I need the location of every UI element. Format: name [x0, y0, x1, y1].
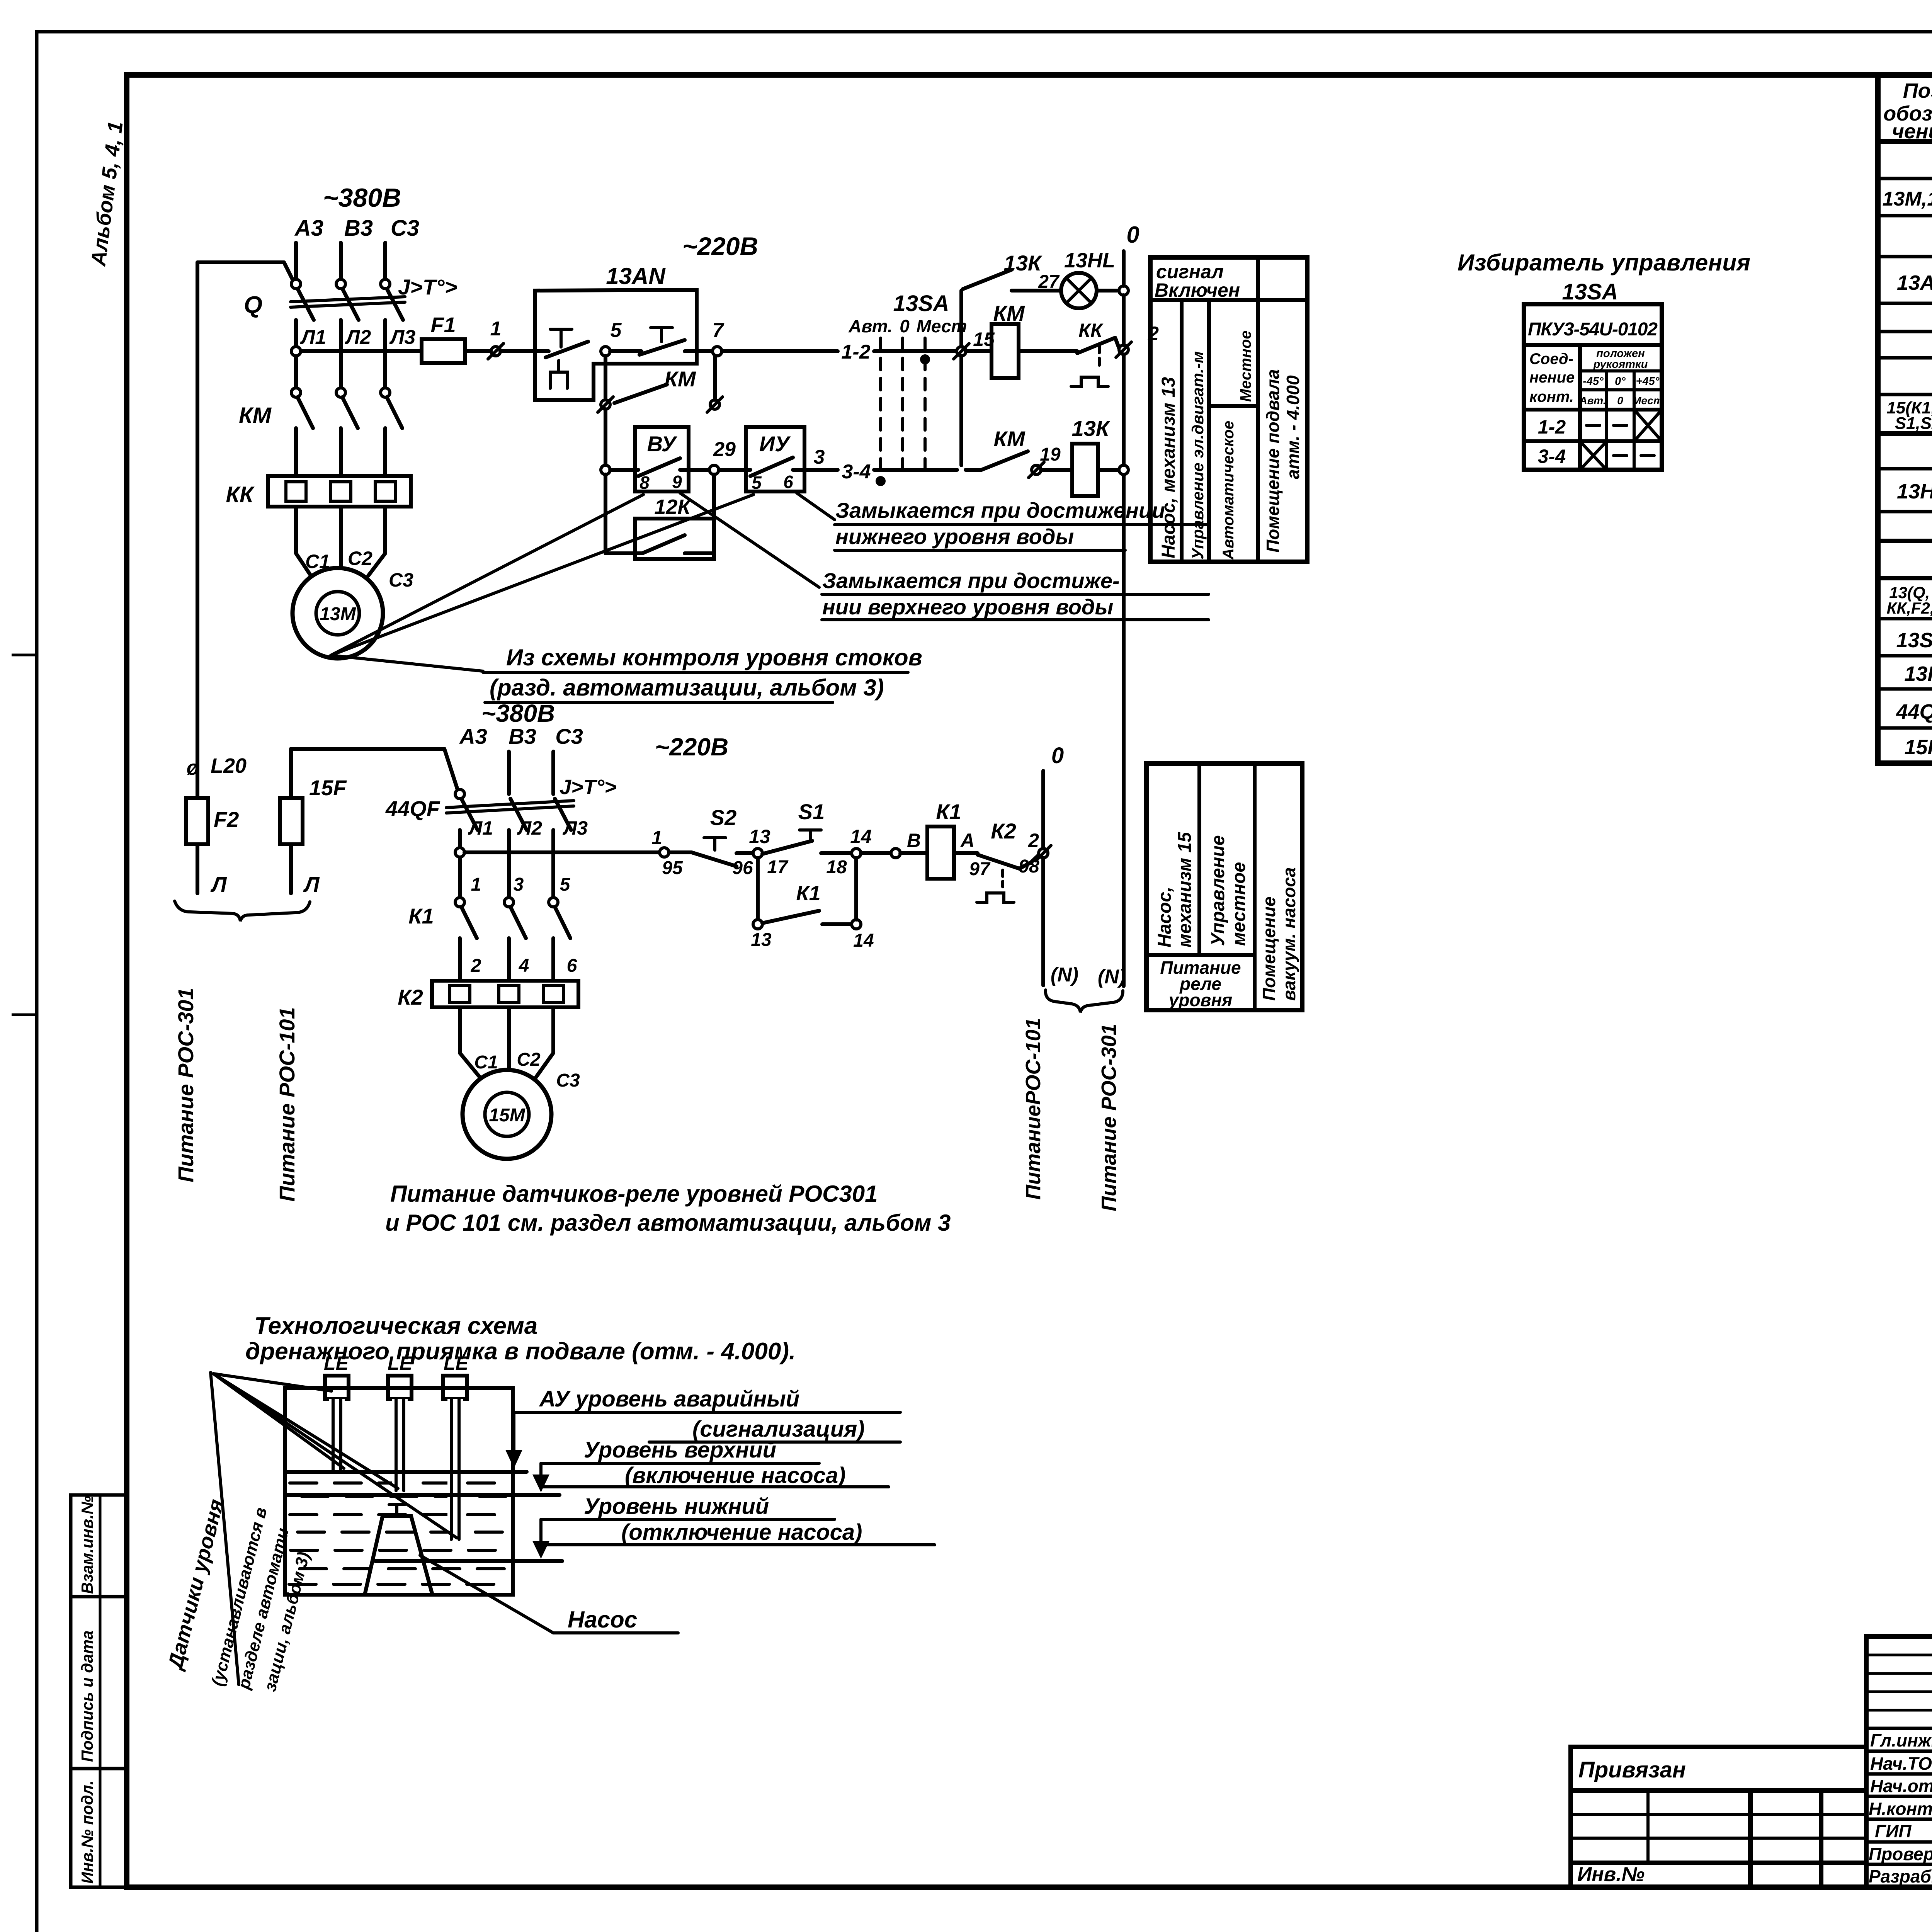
svg-text:ПКУ3-54U-0102: ПКУ3-54U-0102: [1528, 319, 1658, 340]
node 7: [713, 319, 724, 356]
svg-text:0: 0: [900, 316, 910, 336]
svg-text:44QF: 44QF: [1896, 700, 1932, 723]
parts row 13К реле: [1904, 660, 1932, 687]
net ~220В circuit 1 label: [682, 232, 758, 260]
svg-text:Уровень нижний: Уровень нижний: [584, 1494, 769, 1519]
parts row 13(Q,F1,КК,F2,КМ) блок управления: [1887, 581, 1932, 619]
parts row 13М,15М электродвигатель: [1883, 179, 1932, 218]
node B3 label: [344, 216, 373, 241]
svg-text:КМ: КМ: [993, 427, 1025, 451]
svg-text:ПитаниеРОС-101: ПитаниеРОС-101: [1022, 1018, 1045, 1200]
svg-text:Избиратель управления: Избиратель управления: [1458, 250, 1750, 276]
button start SB in 13AN: [610, 328, 713, 355]
svg-text:~220В: ~220В: [682, 232, 758, 260]
svg-text:13К: 13К: [1004, 251, 1043, 275]
node 13 circuit2: [749, 826, 789, 878]
node 29: [709, 438, 736, 474]
svg-text:К2: К2: [991, 819, 1016, 843]
wire phase B3 drop: [339, 243, 343, 280]
node 13K coil to rail: [1119, 465, 1128, 474]
svg-text:Питание РОС-101: Питание РОС-101: [275, 1007, 299, 1202]
rail 0 circuit 2: [1043, 743, 1064, 985]
svg-text:С2: С2: [348, 548, 372, 569]
svg-text:Замыкается при достиже-: Замыкается при достиже-: [822, 568, 1120, 593]
svg-text:J˃T°˃: J˃T°˃: [398, 275, 457, 299]
left margin stamp strip: [71, 1495, 127, 1887]
net ~380В circuit 1 label: [323, 183, 401, 213]
label J T trip: [398, 275, 457, 299]
svg-text:(включение насоса): (включение насоса): [625, 1463, 845, 1488]
svg-text:В: В: [907, 830, 921, 851]
contact KM NO auto branch: [966, 427, 1061, 470]
svg-text:13М: 13М: [320, 604, 356, 624]
node A3 label: [294, 216, 323, 241]
node 15 terminal: [954, 328, 995, 359]
album label Альбом 5,4,1: [87, 120, 128, 268]
contact KK NC trip: [1071, 320, 1119, 386]
svg-text:Мест: Мест: [1632, 395, 1663, 406]
svg-text:чение: чение: [1892, 120, 1932, 143]
svg-text:К1: К1: [408, 904, 434, 928]
svg-text:(N): (N): [1051, 964, 1078, 986]
svg-text:Мест: Мест: [917, 316, 967, 336]
note датчики уровня text: [163, 1497, 313, 1694]
svg-text:0: 0: [1126, 222, 1139, 248]
svg-text:С3: С3: [556, 1070, 580, 1091]
node 14 circuit2: [826, 826, 872, 878]
svg-text:Соед-: Соед-: [1529, 350, 1573, 367]
fold marks: [12, 655, 37, 1015]
svg-text:0: 0: [1051, 743, 1064, 768]
svg-text:ИУ: ИУ: [759, 432, 791, 456]
title block signature table: [1866, 1636, 1932, 1887]
svg-text:3-4: 3-4: [1538, 446, 1566, 467]
coil K1: [900, 799, 991, 879]
svg-text:3-4: 3-4: [842, 461, 871, 483]
svg-text:уровня: уровня: [1168, 990, 1232, 1010]
level switch ВУ box: [610, 427, 709, 493]
svg-text:96: 96: [732, 858, 753, 878]
svg-text:5: 5: [560, 874, 571, 895]
tech scheme title: [245, 1313, 796, 1365]
wire tap to left rail: [197, 262, 293, 281]
svg-text:ø: ø: [187, 756, 199, 779]
svg-text:С3: С3: [555, 724, 583, 748]
svg-text:1: 1: [651, 827, 662, 849]
svg-text:Замыкается при достижении: Замыкается при достижении: [835, 498, 1165, 522]
node 2 terminal circuit2: [1036, 845, 1051, 861]
svg-text:S2: S2: [710, 805, 737, 830]
destination table сигнал включен mechanism 13: [1150, 257, 1307, 562]
wire node15 up to lamp branch: [959, 291, 963, 347]
wire K2 to motor 15M: [460, 1007, 580, 1091]
svg-text:0°: 0°: [1615, 375, 1626, 388]
svg-text:нение: нение: [1529, 369, 1575, 386]
wire Л1 Л2 Л3 drops: [296, 320, 415, 388]
svg-text:13: 13: [751, 930, 772, 950]
svg-text:Л: Л: [210, 872, 227, 896]
fuse F2 feed РОС-301: [186, 754, 247, 896]
svg-text:КМ: КМ: [664, 367, 696, 391]
note питание датчиков-реле: [385, 1181, 951, 1236]
svg-text:Нач.ТО: Нач.ТО: [1870, 1753, 1932, 1774]
svg-text:КК: КК: [1078, 320, 1104, 341]
wire 1-2 to node 15: [874, 349, 957, 353]
label питание РОС-101 left: [275, 1007, 299, 1202]
svg-text:-45°: -45°: [1583, 375, 1604, 388]
wire F1 to node 1: [465, 349, 492, 353]
svg-text:13SА: 13SА: [893, 291, 949, 316]
svg-text:местное: местное: [1229, 862, 1249, 946]
wire ИУ to selector 3-4: [810, 468, 838, 472]
switch Q: [244, 279, 405, 320]
contactor KM main contacts: [239, 388, 402, 476]
label питание РОС-301 right: [1097, 1024, 1121, 1211]
parts row 13AN пост управления: [1897, 260, 1932, 296]
svg-text:L20: L20: [211, 754, 247, 777]
svg-text:Л1: Л1: [300, 326, 327, 349]
svg-text:7: 7: [713, 319, 724, 342]
contact KM aux self-hold: [598, 356, 723, 412]
svg-text:~380В: ~380В: [481, 699, 555, 727]
note АУ уровень аварийный: [505, 1386, 900, 1468]
svg-text:3: 3: [514, 874, 524, 895]
svg-text:15М: 15М: [489, 1105, 525, 1126]
label N right: [1098, 966, 1126, 988]
svg-text:атм. - 4.000: атм. - 4.000: [1283, 375, 1303, 479]
svg-text:14: 14: [853, 930, 874, 951]
fuse 15F feed РОС-101: [280, 749, 444, 896]
level sensor LE 1: [324, 1352, 349, 1471]
svg-text:А3: А3: [294, 216, 323, 241]
parts list table frame: [1878, 75, 1932, 763]
brace N rails: [1046, 990, 1123, 1012]
svg-text:Q: Q: [244, 292, 262, 318]
parts row 44QF автомат: [1896, 698, 1932, 724]
svg-text:КМ: КМ: [993, 301, 1025, 325]
svg-text:В3: В3: [509, 724, 536, 748]
note замыкается верхний уровень: [680, 493, 1209, 620]
svg-text:КК: КК: [226, 482, 255, 507]
svg-text:Включен: Включен: [1155, 279, 1240, 301]
svg-text:А: А: [960, 830, 975, 851]
svg-text:18: 18: [826, 857, 847, 878]
svg-text:Технологическая схема: Технологическая схема: [254, 1313, 537, 1339]
svg-text:Авт.: Авт.: [848, 316, 892, 336]
selector table 13SA: [1524, 304, 1663, 470]
wire node7 to selector: [722, 349, 838, 353]
node C3 label: [391, 216, 419, 241]
svg-text:конт.: конт.: [1529, 388, 1574, 405]
parts row 15(К1,К2,S1,S2) пускатель: [1886, 396, 1932, 433]
svg-text:нии верхнего уровня воды: нии верхнего уровня воды: [822, 595, 1113, 619]
svg-text:1-2: 1-2: [841, 341, 870, 363]
svg-text:К2: К2: [398, 985, 423, 1009]
button S1 start NO: [762, 799, 852, 854]
svg-text:Из схемы контроля уровня стоко: Из схемы контроля уровня стоков: [506, 645, 922, 670]
svg-text:13HL: 13HL: [1897, 480, 1932, 503]
svg-text:3: 3: [814, 446, 825, 468]
svg-text:вакуум. насоса: вакуум. насоса: [1279, 867, 1299, 1001]
label питание РОС-101 right: [1022, 1018, 1045, 1200]
svg-text:F1: F1: [430, 313, 456, 337]
svg-text:13АN: 13АN: [1897, 271, 1932, 294]
wire phase drops circuit 2: [509, 752, 553, 794]
svg-text:Помещение: Помещение: [1259, 896, 1279, 1001]
svg-text:(отключение насоса): (отключение насоса): [621, 1520, 862, 1545]
label питание РОС-301 left: [173, 988, 198, 1182]
wire left rail down to F2: [196, 262, 199, 798]
svg-text:Насос,: Насос,: [1155, 887, 1175, 947]
svg-text:15F: 15F: [1904, 736, 1932, 759]
svg-text:13К: 13К: [1072, 416, 1111, 440]
node 3 label: [814, 446, 825, 468]
coil 13K: [1041, 416, 1119, 496]
svg-text:17: 17: [767, 857, 789, 878]
svg-text:Помещение подвала: Помещение подвала: [1263, 369, 1283, 553]
svg-text:ВУ: ВУ: [647, 432, 678, 456]
level line middle: [285, 1493, 560, 1497]
svg-text:13: 13: [749, 826, 770, 847]
wire feed diagonal to A3: [444, 749, 457, 789]
svg-text:Питание датчиков-реле уровней: Питание датчиков-реле уровней РОС301: [390, 1181, 878, 1207]
svg-text:9: 9: [672, 472, 682, 492]
svg-text:Инв.№: Инв.№: [1577, 1863, 1645, 1886]
svg-text:Авт.: Авт.: [1579, 395, 1606, 406]
contact 13K NO lamp branch: [963, 251, 1061, 292]
level line upper: [285, 1470, 527, 1474]
svg-text:5: 5: [611, 319, 622, 342]
svg-text:S1: S1: [798, 799, 825, 824]
contactor K1 main contacts: [408, 874, 577, 981]
net 1-2 label: [841, 341, 870, 363]
svg-text:~380В: ~380В: [323, 183, 401, 213]
svg-text:~220В: ~220В: [655, 733, 728, 761]
wire KK to motor: [296, 507, 413, 591]
svg-text:АУ уровень аварийный: АУ уровень аварийный: [539, 1386, 799, 1412]
wire node15 down to node17: [959, 356, 963, 465]
svg-text:Автоматическое: Автоматическое: [1220, 421, 1237, 560]
svg-text:S1,S2)“: S1,S2)“: [1895, 414, 1932, 433]
parts row 13HL арматура: [1897, 473, 1932, 512]
note насос: [420, 1555, 678, 1633]
svg-text:Насос, механизм 13: Насос, механизм 13: [1158, 377, 1179, 558]
node 5: [601, 319, 622, 356]
net ~220В circuit 2 label: [655, 733, 728, 761]
node 19 terminal: [1029, 462, 1044, 478]
svg-text:рукоятки: рукоятки: [1593, 358, 1648, 371]
svg-text:95: 95: [662, 858, 683, 878]
svg-text:Питание РОС-301: Питание РОС-301: [173, 988, 198, 1182]
svg-text:нижнего уровня воды: нижнего уровня воды: [835, 524, 1074, 549]
svg-text:0: 0: [1617, 395, 1623, 406]
svg-text:ГИП: ГИП: [1875, 1821, 1912, 1841]
contact K2 NC trip circuit2: [977, 819, 1039, 902]
svg-text:6: 6: [783, 472, 793, 492]
net ~380В circuit 2 label: [481, 699, 555, 727]
svg-text:С3: С3: [391, 216, 419, 241]
thermal relay KK heaters: [226, 476, 411, 507]
svg-text:Л3: Л3: [563, 817, 588, 839]
level sensor LE 3: [443, 1352, 469, 1539]
svg-text:С2: С2: [517, 1049, 541, 1070]
selector table 13SA title: [1458, 250, 1750, 304]
motor 15M: [463, 1070, 551, 1159]
parts row 15F предохранитель: [1904, 734, 1932, 760]
label N left: [1051, 964, 1078, 986]
svg-text:+45°: +45°: [1636, 375, 1660, 388]
svg-text:Провер.: Провер.: [1869, 1844, 1932, 1864]
selector 13SA dashed lines: [848, 291, 967, 486]
breaker 44QF: [385, 789, 588, 839]
svg-text:С3: С3: [389, 569, 413, 591]
fuse F1: [422, 313, 465, 363]
note датчики уровня leader lines: [211, 1372, 457, 1685]
node B: [861, 830, 921, 858]
svg-text:Управление эл.двигат.-м: Управление эл.двигат.-м: [1189, 351, 1207, 560]
note из схемы контроля: [331, 495, 922, 702]
rail 0 circuit 1: [1124, 222, 1139, 986]
svg-text:Насос: Насос: [568, 1607, 637, 1633]
svg-text:LE: LE: [324, 1352, 349, 1374]
svg-text:13SA: 13SA: [1896, 629, 1932, 652]
svg-text:механизм 15: механизм 15: [1175, 832, 1195, 947]
svg-text:Разраб.: Разраб.: [1869, 1866, 1932, 1886]
node 2 terminal: [1116, 323, 1159, 357]
svg-text:Гл.инж.: Гл.инж.: [1870, 1730, 1932, 1750]
brace feeds РОС: [175, 901, 310, 921]
svg-text:1-2: 1-2: [1538, 416, 1566, 438]
note уровень нижний: [532, 1494, 935, 1559]
note замыкается нижний уровень: [797, 493, 1209, 550]
motor 13M: [293, 568, 383, 658]
svg-text:Л1: Л1: [468, 817, 493, 839]
svg-text:2: 2: [471, 956, 481, 976]
level sensor LE 2: [388, 1352, 413, 1491]
svg-text:К1: К1: [936, 799, 961, 824]
wire 3-4 to node 17: [874, 468, 957, 472]
thermal relay K2 heaters: [398, 981, 578, 1009]
tank outline: [285, 1388, 513, 1595]
wire phase A3 drop: [294, 243, 298, 280]
svg-text:Привязан: Привязан: [1578, 1757, 1686, 1782]
svg-text:13АN: 13АN: [606, 263, 666, 289]
wire phase C3 drop: [383, 243, 387, 280]
svg-text:Питание РОС-301: Питание РОС-301: [1097, 1024, 1121, 1211]
button stop SB in 13AN: [537, 329, 588, 388]
wire to fuse F1: [301, 349, 422, 353]
node 1 circuit2: [651, 827, 683, 878]
svg-text:13HL: 13HL: [1064, 249, 1115, 272]
svg-text:6: 6: [567, 956, 577, 976]
svg-text:Л: Л: [303, 872, 320, 896]
node 1 terminal: [488, 318, 503, 359]
parts row 13SA переключатель: [1896, 619, 1932, 656]
circuit2 phase labels: [459, 724, 583, 748]
svg-text:Н.контр.: Н.контр.: [1869, 1799, 1932, 1819]
svg-text:13К: 13К: [1904, 662, 1932, 685]
svg-text:44QF: 44QF: [385, 796, 440, 821]
svg-text:LE: LE: [388, 1352, 413, 1374]
svg-text:(N): (N): [1098, 966, 1126, 988]
svg-text:5: 5: [752, 473, 762, 493]
title block привязан table: [1571, 1747, 1866, 1887]
svg-text:97: 97: [969, 859, 991, 879]
svg-text:Местное: Местное: [1237, 330, 1254, 402]
svg-text:Подпись и дата: Подпись и дата: [78, 1631, 96, 1762]
svg-text:14: 14: [850, 826, 872, 847]
label J T trip circuit2: [560, 776, 617, 799]
svg-text:Уровень верхний: Уровень верхний: [584, 1437, 776, 1463]
button S2 stop NC: [669, 805, 753, 878]
svg-text:Поз.: Поз.: [1903, 79, 1932, 102]
svg-text:Взам.инв.№: Взам.инв.№: [78, 1496, 96, 1594]
tank water hatching: [289, 1483, 510, 1584]
level line lower: [375, 1559, 562, 1563]
svg-text:Управление: Управление: [1208, 835, 1228, 946]
wire node5 branch down to ВУ row: [604, 409, 607, 465]
node lamp to 0 rail: [1119, 286, 1128, 295]
svg-text:2: 2: [1028, 830, 1039, 851]
note уровень верхний: [532, 1437, 889, 1492]
svg-text:Л2: Л2: [517, 817, 542, 839]
svg-text:КК,F2,КМ): КК,F2,КМ): [1887, 599, 1932, 617]
svg-text:J˃T°˃: J˃T°˃: [560, 776, 617, 799]
svg-text:4: 4: [519, 956, 529, 976]
svg-text:Инв.№ подл.: Инв.№ подл.: [78, 1781, 96, 1884]
button station 13AN box: [535, 263, 697, 400]
node junction ВУ row: [601, 465, 610, 474]
svg-text:13М,15М: 13М,15М: [1883, 188, 1932, 210]
wire node1 to 13AN box: [500, 349, 537, 353]
svg-text:13SА: 13SА: [1562, 279, 1618, 304]
svg-text:В3: В3: [344, 216, 373, 241]
svg-text:27: 27: [1038, 272, 1060, 292]
svg-text:LE: LE: [444, 1352, 469, 1374]
svg-text:К1: К1: [796, 882, 820, 905]
svg-text:15F: 15F: [309, 776, 347, 800]
svg-text:29: 29: [713, 438, 736, 461]
svg-text:(разд. автоматизации, альбом 3: (разд. автоматизации, альбом 3): [490, 675, 884, 701]
pump symbol in tank: [365, 1505, 432, 1595]
node tap Л1: [291, 347, 301, 356]
svg-text:КМ: КМ: [239, 403, 272, 428]
net 3-4 label: [842, 461, 871, 483]
contact K1 selfhold circuit2: [751, 858, 874, 951]
wire control circuit2 main: [464, 850, 660, 854]
svg-text:1: 1: [490, 318, 502, 340]
level switch ИУ box: [719, 427, 810, 493]
wire 44QF to K1: [460, 830, 553, 898]
svg-text:1: 1: [471, 874, 481, 895]
coil KM circuit1: [966, 301, 1077, 378]
destination table mechanism 15: [1146, 764, 1302, 1010]
svg-text:F2: F2: [214, 807, 239, 832]
svg-text:Л2: Л2: [345, 326, 371, 349]
svg-text:и РОС 101 см. раздел автомат: и РОС 101 см. раздел автоматизации, альб…: [385, 1210, 951, 1236]
svg-text:Нач.отд.: Нач.отд.: [1870, 1776, 1932, 1796]
parts table header: [1883, 79, 1932, 143]
contact 12К bypass box: [605, 474, 714, 559]
wire node5 down: [604, 356, 607, 400]
svg-text:8: 8: [639, 473, 650, 493]
svg-text:А3: А3: [459, 724, 487, 748]
lamp 13HL: [1061, 249, 1119, 308]
svg-text:Л3: Л3: [389, 326, 416, 349]
node tap control circuit2: [455, 848, 464, 857]
